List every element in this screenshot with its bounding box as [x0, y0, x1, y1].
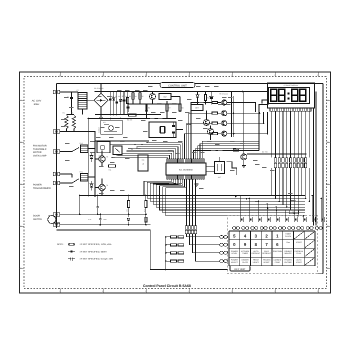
resistor R7 — [166, 101, 171, 119]
wire bridge top — [100, 84, 102, 94]
display connector strip — [270, 108, 311, 111]
connector CN-C pin2 door switch — [53, 223, 60, 226]
wire relay aux — [107, 151, 115, 153]
resistor R16 door — [145, 214, 147, 224]
crystal X2 block — [113, 146, 122, 159]
wire fan IC1 key scan lines — [144, 179, 305, 216]
wire display segment bus upper — [272, 111, 310, 157]
svg-text:TRANSFORMER: TRANSFORMER — [33, 187, 51, 190]
key caps row2 digits — [233, 242, 279, 247]
ground G3 — [242, 166, 246, 168]
control unit enclosure top edge — [57, 83, 324, 85]
control unit enclosure left edge — [56, 84, 58, 229]
wire transformer secondary — [83, 100, 95, 114]
digit driver transistor TR4 — [212, 112, 268, 136]
wire resistor bottoms — [67, 129, 75, 132]
digit driver transistor TR3 — [212, 112, 264, 126]
label fan motor turntable motor oven lamp — [33, 145, 47, 158]
microcontroller IC1 body — [166, 163, 206, 175]
resistor R11 — [109, 165, 116, 172]
door switch SW1 — [48, 215, 56, 224]
wire door common — [60, 224, 150, 226]
key return filter parts — [185, 226, 196, 234]
dc bus 2 — [88, 118, 176, 120]
junction scan dots — [235, 196, 277, 211]
svg-text:DEFROST: DEFROST — [252, 252, 261, 255]
key unit left connectors — [220, 236, 228, 263]
svg-text:DOOR: DOOR — [33, 215, 40, 218]
label door parts — [88, 218, 107, 221]
microcontroller IC1 label — [179, 168, 194, 171]
diode D4 — [90, 181, 93, 191]
wire CN-B pin2 to coil — [60, 174, 80, 177]
seven segment display digits 88:88 — [271, 89, 306, 101]
display unit caption — [284, 84, 299, 87]
svg-text:START: START — [296, 241, 303, 244]
resistor R10 — [204, 92, 209, 105]
crystal X1 — [159, 127, 165, 134]
resistor R3 — [127, 95, 132, 104]
display unit outer box — [268, 83, 315, 108]
capacitor C1 line filter — [67, 96, 73, 115]
IC1 bottom pin row — [167, 175, 205, 179]
svg-text:POPCORN: POPCORN — [273, 250, 283, 253]
wire fan IC1 to power section — [111, 142, 182, 159]
key caps row3 — [231, 250, 304, 255]
digit driver transistor TR2 — [212, 111, 260, 116]
key cap start — [296, 241, 303, 244]
frame tick marks — [20, 72, 331, 293]
svg-text:TURNTABLE: TURNTABLE — [33, 148, 47, 151]
vertical rail A — [87, 119, 89, 197]
svg-text:PLUS: PLUS — [297, 252, 302, 255]
connector CN-A pin2 AC line — [53, 130, 60, 133]
svg-text:NOTE :: NOTE : — [57, 243, 65, 246]
svg-text:VEGET.: VEGET. — [253, 261, 260, 264]
resistor R2 surge — [71, 112, 76, 129]
junction resistor bottoms — [66, 131, 75, 133]
wire display segment bus lower — [271, 168, 310, 217]
capacitor C5 — [172, 122, 175, 127]
wire oscillator to IC — [176, 130, 183, 138]
zener ZD2 — [196, 92, 199, 105]
svg-text:Res: Res — [287, 241, 290, 244]
capacitor C10 door — [99, 214, 102, 225]
svg-text:DEFROST: DEFROST — [262, 252, 271, 255]
resistor network RN1 row2 — [274, 163, 306, 167]
wire buzzer — [247, 151, 307, 155]
transistor Q2 — [204, 111, 210, 126]
wire regulator output — [171, 97, 180, 105]
resistor R8 — [179, 104, 184, 112]
wire centre rail 141 — [95, 140, 149, 142]
svg-text:DB S1WB60: DB S1WB60 — [94, 87, 104, 90]
svg-text:IC2: IC2 — [164, 96, 167, 99]
wire bridge bottom to bus — [100, 107, 102, 114]
connector CN-C pin1 door switch — [53, 213, 60, 216]
label power transformer — [33, 184, 51, 190]
ceramic resonator X3 block — [206, 157, 225, 179]
connector CN-B pin3 power transformer — [53, 181, 60, 184]
capacitor C4 — [123, 95, 128, 101]
diode D3 — [90, 153, 93, 163]
svg-text:CONTROL UNIT: CONTROL UNIT — [168, 84, 187, 87]
label door switch — [33, 215, 42, 221]
svg-text:LEVEL: LEVEL — [232, 252, 238, 255]
digit driver transistor TR1 — [212, 100, 256, 112]
svg-text:SWITCH: SWITCH — [33, 218, 42, 221]
keyboard label box — [289, 210, 299, 214]
wire TR step — [227, 162, 237, 176]
svg-text:: IF NOT SPECIFIED, 0.01µF, ±5: : IF NOT SPECIFIED, 0.01µF, ±5% — [79, 258, 113, 261]
diode D6 door — [127, 214, 130, 225]
svg-text:: IF NOT SPECIFIED, 1/4W, ±5%: : IF NOT SPECIFIED, 1/4W, ±5% — [79, 243, 111, 246]
wire RY1 coil out — [88, 176, 96, 178]
wire door sense — [60, 213, 147, 215]
svg-text:KEY UNIT: KEY UNIT — [235, 268, 247, 271]
svg-text:BZ +5V: BZ +5V — [262, 151, 269, 154]
transistor Q1 series regulator — [150, 92, 156, 105]
IC1 top pin row — [167, 159, 205, 163]
svg-text:TR DTA144: TR DTA144 — [219, 92, 228, 95]
wire key scan drops — [240, 195, 322, 217]
svg-text:R1: R1 — [63, 112, 65, 115]
junction dots dc bus — [109, 114, 128, 116]
detector box A — [191, 105, 203, 111]
key unit enclosure — [228, 216, 318, 274]
resistor R9 horizontal — [124, 114, 136, 122]
power transformer T1 winding — [78, 93, 87, 110]
right side vertical wire 2 — [268, 92, 317, 226]
key return pull-up bus — [165, 237, 167, 270]
top rail wire — [95, 91, 268, 93]
wire centre rail 144.5 — [110, 144, 149, 146]
wire AC line top — [60, 92, 78, 97]
key cap reset — [287, 241, 290, 244]
junction bridge bottom — [100, 114, 102, 116]
label S-80845 — [98, 127, 101, 133]
wire TR feeds — [210, 113, 213, 133]
svg-text:LT-5016T DISPLAY: LT-5016T DISPLAY — [284, 84, 299, 87]
capacitor C6 — [172, 132, 175, 138]
wire key return rows — [187, 234, 220, 261]
display bezel — [269, 87, 310, 103]
zener ZD1 — [119, 95, 125, 102]
svg-text:RY2: RY2 — [80, 142, 83, 145]
relay driver transistor Q5 — [95, 184, 109, 196]
wire driver collectors — [101, 151, 103, 185]
border tick frame — [24, 77, 327, 289]
capacitor C9 — [127, 103, 130, 112]
svg-text:ENTREE: ENTREE — [284, 261, 292, 264]
svg-text:R2: R2 — [71, 112, 73, 115]
diode D2 — [112, 95, 117, 100]
relay RY2 contact — [60, 148, 79, 153]
ground G2 — [195, 179, 199, 186]
dc bus lower — [95, 114, 161, 116]
wire AC line bottom — [60, 131, 95, 133]
wire RY2 coil out — [88, 148, 96, 150]
border frame outer — [20, 72, 331, 293]
junction ac top — [71, 91, 73, 93]
svg-text:RY1: RY1 — [80, 171, 83, 174]
oscillator loop box — [149, 122, 176, 138]
ground G1 — [99, 115, 103, 120]
wire display left pins — [259, 100, 269, 118]
key board connector row — [232, 227, 322, 230]
relay RY1 coil — [80, 171, 89, 182]
svg-text:START: START — [296, 261, 303, 264]
svg-text:: IF NOT SPECIFIED, 50WV: : IF NOT SPECIFIED, 50WV — [79, 250, 107, 253]
voltage regulator IC2 box — [159, 94, 171, 100]
key blank diagonal cells — [294, 232, 314, 265]
svg-text:VEGET.: VEGET. — [263, 261, 270, 264]
wire left section to key unit — [150, 230, 227, 270]
wire mid rail — [128, 103, 181, 105]
relay RY2 coil — [80, 142, 89, 153]
resistor R14 vertical — [126, 196, 130, 216]
relay RY1 contact — [60, 179, 79, 184]
label DB1 — [94, 87, 104, 90]
key matrix grid — [229, 231, 315, 266]
capacitor C3 — [116, 95, 121, 103]
control unit enclosure right edge — [318, 84, 324, 274]
transistor Q6 buzzer driver — [241, 92, 247, 166]
TR bias bus — [231, 91, 235, 137]
reset block2 — [97, 142, 110, 158]
svg-text:MOTOR: MOTOR — [33, 151, 42, 154]
relay driver transistor Q4 — [95, 156, 109, 167]
wire key return verticals — [187, 179, 196, 226]
svg-text:CLOCK: CLOCK — [285, 235, 292, 238]
label AC 120V 60Hz — [32, 100, 42, 106]
resistor R5 — [139, 92, 144, 105]
key return resistors — [165, 236, 184, 262]
svg-text:MINUTE: MINUTE — [285, 252, 293, 255]
wire fan IC1 to display — [194, 118, 260, 159]
wire rail drop at 95 — [94, 91, 96, 93]
svg-text:SELECT: SELECT — [231, 261, 239, 264]
svg-text:Control Panel Circuit R-5A68: Control Panel Circuit R-5A68 — [143, 284, 191, 288]
vertical 97.7 with capacitor — [96, 196, 99, 216]
right side vertical wire 1 — [311, 108, 314, 226]
svg-text:POWER: POWER — [33, 184, 42, 187]
junction dots top rail — [100, 91, 243, 93]
wire fan IC1 to digit drivers — [185, 103, 212, 159]
label T1 — [77, 89, 79, 92]
connector CN-A pin1 AC line — [53, 90, 60, 93]
junction dots dc bus2 — [109, 118, 155, 120]
tiny reference designator texture — [61, 86, 296, 201]
capacitor C7 — [210, 91, 213, 105]
key cap timer clock — [285, 232, 292, 237]
notes legend — [57, 243, 113, 261]
junction door bus — [100, 224, 147, 226]
key unit label box — [230, 266, 250, 271]
svg-text:OVEN LAMP: OVEN LAMP — [33, 155, 47, 158]
key matrix diode row — [240, 217, 324, 222]
control unit label box — [160, 83, 195, 88]
common rail — [80, 195, 147, 197]
resistor network RN1 row1 — [274, 158, 306, 162]
svg-text:TIMER: TIMER — [242, 252, 248, 255]
connector CN-B pin1 fan turntable lamp — [53, 150, 60, 153]
svg-text:FOOD: FOOD — [275, 261, 281, 264]
svg-text:IC1 IX2469CE: IC1 IX2469CE — [179, 168, 194, 171]
resistor R15 vertical — [143, 196, 147, 216]
title — [143, 284, 191, 288]
svg-text:PLATE: PLATE — [242, 261, 248, 264]
left section bottom edge — [57, 229, 151, 231]
svg-text:FAN MOTOR: FAN MOTOR — [33, 145, 47, 148]
svg-text:60Hz: 60Hz — [34, 103, 40, 106]
key caps row4 — [231, 259, 303, 264]
resistor R6 — [145, 104, 150, 119]
bridge rectifier DB1 — [94, 93, 108, 107]
key caps row1 digits — [233, 233, 279, 238]
resistor R13 — [233, 149, 239, 151]
connector CN-B pin2 power transformer — [53, 172, 60, 175]
vertical rail B — [88, 118, 96, 198]
wire resistor tops — [67, 114, 75, 116]
driver array IC4 box — [138, 155, 148, 171]
door section top rail — [79, 195, 81, 216]
transistor Q3 — [208, 126, 214, 141]
label TR array — [219, 92, 228, 95]
smoothing rail wires — [110, 92, 127, 115]
resistor R1 surge — [63, 112, 69, 129]
reset IC3 block — [101, 120, 122, 134]
svg-text:PT: PT — [77, 89, 79, 92]
capacitor C2 — [109, 95, 114, 100]
resistor R4 — [132, 92, 137, 105]
